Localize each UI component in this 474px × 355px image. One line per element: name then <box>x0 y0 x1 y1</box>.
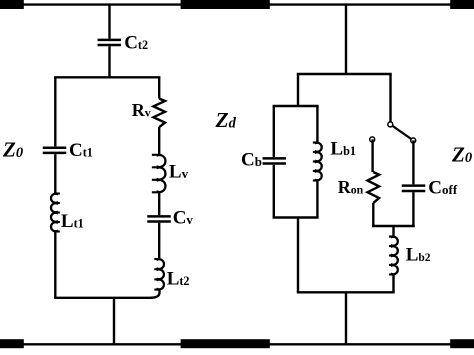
svg-text:Lb2: Lb2 <box>406 245 431 266</box>
svg-text:Cb: Cb <box>241 150 262 171</box>
svg-text:Z0: Z0 <box>451 143 472 167</box>
svg-text:Cv: Cv <box>173 207 194 228</box>
svg-text:Z0: Z0 <box>2 138 23 162</box>
svg-text:Lv: Lv <box>169 162 189 183</box>
svg-text:Lb1: Lb1 <box>330 138 356 159</box>
svg-text:Ct2: Ct2 <box>124 32 148 53</box>
svg-text:Ron: Ron <box>338 177 364 197</box>
svg-text:Lt1: Lt1 <box>61 211 84 232</box>
svg-text:Ct1: Ct1 <box>69 140 93 161</box>
svg-text:Rv: Rv <box>132 100 151 120</box>
svg-text:Zd: Zd <box>215 108 237 132</box>
svg-text:Coff: Coff <box>428 178 458 199</box>
svg-text:Lt2: Lt2 <box>167 269 190 290</box>
